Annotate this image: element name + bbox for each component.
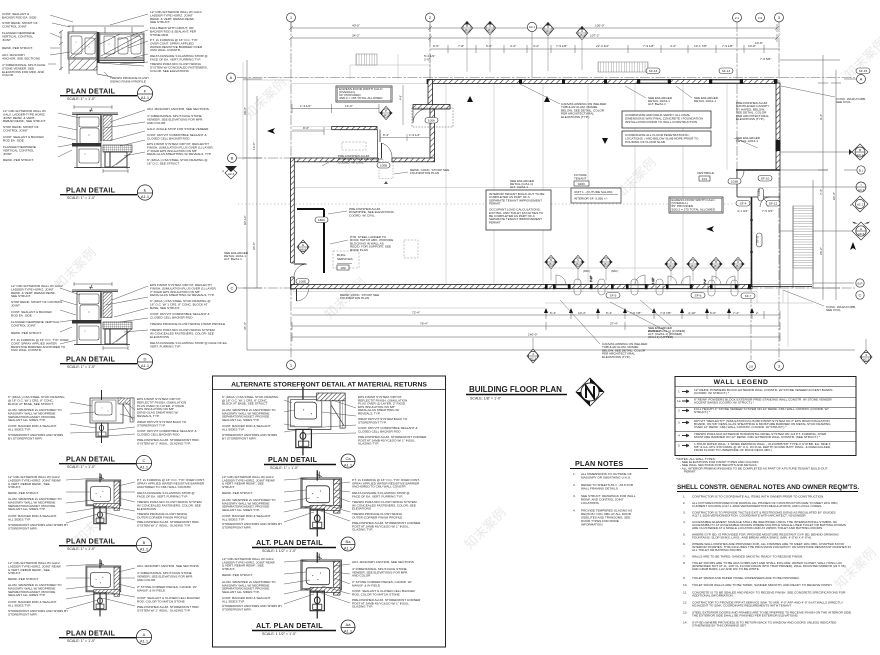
svg-text:Ca: Ca	[345, 456, 351, 461]
door tag SF-5	[606, 293, 620, 299]
svg-text:A8.4: A8.4	[487, 28, 493, 32]
svg-text:SHELL CONSTR. GENERAL NOTES AN: SHELL CONSTR. GENERAL NOTES AND OWNER RE…	[677, 484, 859, 491]
svg-text:26'-2": 26'-2"	[819, 247, 823, 255]
svg-text:ALT. PLAN DETAIL: ALT. PLAN DETAIL	[256, 621, 323, 630]
svg-text:2: 2	[850, 203, 852, 207]
svg-text:PLAN DETAIL: PLAN DETAIL	[66, 186, 116, 195]
svg-text:B.P: B.P	[858, 282, 863, 286]
svg-text:4'-2": 4'-2"	[670, 44, 676, 48]
svg-text:5: 5	[678, 444, 680, 448]
door tag 100A	[425, 118, 438, 124]
section marker P/A2.3 mid	[379, 106, 392, 119]
svg-text:9'-4": 9'-4"	[819, 114, 823, 120]
svg-text:REINF. PER STRUCT.: REINF. PER STRUCT.	[11, 331, 42, 335]
stoop dashed	[379, 162, 393, 185]
svg-text:A2.3: A2.3	[383, 113, 389, 117]
svg-text:SCALE: 1" = 1'-0": SCALE: 1" = 1'-0"	[67, 639, 96, 643]
ramp hatch top-middle	[598, 62, 648, 72]
plan detail A drawing	[86, 559, 121, 616]
coordination note box 1	[622, 111, 711, 128]
svg-text:D: D	[144, 357, 147, 362]
svg-text:A1.1: A1.1	[141, 95, 150, 100]
section marker B/A3.1 right	[780, 144, 868, 160]
svg-text:B: B	[143, 540, 146, 545]
svg-text:6'-6": 6'-6"	[433, 44, 439, 48]
svg-text:TRESPA PROFACE FLUSH SIDINGOUT: TRESPA PROFACE FLUSH SIDINGOUTER-CORNER …	[352, 512, 403, 519]
svg-text:BUILDING FLOOR PLAN: BUILDING FLOOR PLAN	[469, 385, 562, 394]
svg-text:TRESPA PROFACE FLUSHSIDING FIN: TRESPA PROFACE FLUSHSIDING FINISH PROFIL…	[110, 76, 149, 83]
svg-text:60'-10": 60'-10"	[243, 215, 247, 225]
awning edge light	[292, 127, 331, 130]
legend row 5	[678, 442, 831, 452]
svg-text:100A: 100A	[428, 119, 436, 123]
svg-text:A1.1: A1.1	[344, 546, 353, 551]
svg-text:SCALE: 1" = 1'-0": SCALE: 1" = 1'-0"	[67, 196, 96, 200]
wall legend box	[675, 377, 856, 456]
coordination note box 2	[622, 131, 711, 146]
svg-text:B: B	[859, 148, 861, 152]
grid bubble 2 top	[426, 13, 435, 22]
svg-text:SF-12: SF-12	[769, 202, 778, 206]
svg-text:EPS FINISH SYSTEM: DRYVIT, REF: EPS FINISH SYSTEM: DRYVIT, REFLECTITFINI…	[150, 283, 217, 297]
grid bubble A right	[844, 75, 866, 84]
bldg services label	[337, 253, 353, 270]
svg-text:1'-10": 1'-10"	[590, 276, 593, 282]
grid bubble 3 bottom	[775, 362, 784, 371]
west wall door opening	[290, 263, 308, 277]
future tenant label	[574, 173, 589, 186]
svg-text:SF-4: SF-4	[740, 202, 747, 206]
svg-text:A: A	[230, 75, 233, 80]
svg-text:7'-8": 7'-8"	[458, 44, 464, 48]
svg-text:I: I	[861, 183, 862, 187]
svg-text:DELTA FASSADE S FLASHING STRIP: DELTA FASSADE S FLASHING STRIP @FACE OF …	[137, 491, 195, 498]
svg-text:100B: 100B	[380, 164, 387, 168]
grid line 3	[778, 22, 780, 361]
svg-text:2.ALL FIXTURES PROVIDED FOR DU: 2.ALL FIXTURES PROVIDED FOR DURING ALL P…	[683, 501, 839, 508]
svg-text:2: 2	[678, 409, 680, 413]
grid bubble C right	[856, 291, 864, 299]
svg-text:PLAN DETAIL: PLAN DETAIL	[66, 355, 116, 364]
svg-text:7.WALLS ARE TO BE TAPED, SANDE: 7.WALLS ARE TO BE TAPED, SANDED SMOOTH, …	[683, 555, 803, 559]
svg-text:7'-9 1/8": 7'-9 1/8"	[556, 44, 567, 48]
svg-text:B: B	[231, 156, 234, 161]
svg-text:B.): B.)	[859, 169, 863, 173]
svg-text:SF-6: SF-6	[695, 294, 702, 298]
detail F bubble	[137, 86, 152, 101]
detail F leader lines	[48, 14, 148, 76]
svg-text:A2.3: A2.3	[530, 357, 537, 361]
svg-text:1'-4 1/2": 1'-4 1/2"	[300, 104, 311, 108]
detail Ca drawing	[288, 387, 345, 456]
grid line 1	[290, 22, 292, 361]
plan detail F drawing	[59, 26, 144, 77]
detail D bubble	[137, 354, 152, 369]
svg-text:A8.4: A8.4	[713, 264, 719, 268]
grid bubble B. right	[844, 166, 865, 174]
svg-text:SCALE: 1" = 1'-0": SCALE: 1" = 1'-0"	[67, 465, 96, 469]
svg-text:140'-0": 140'-0"	[528, 333, 538, 337]
svg-text:A8.4: A8.4	[575, 262, 581, 266]
svg-text:A2.3: A2.3	[863, 358, 870, 362]
svg-text:SEE ENLARGEDDETAIL 10/A1.1: SEE ENLARGEDDETAIL 10/A1.1	[694, 96, 719, 103]
grid line C	[237, 287, 855, 289]
svg-text:TRESPA PROFACE FLUSH SIDINGOUT: TRESPA PROFACE FLUSH SIDINGOUTER-CORNER …	[137, 512, 188, 519]
grid line 2	[429, 22, 431, 160]
grid bubble 1 bottom	[287, 361, 296, 370]
svg-text:SF-9: SF-9	[756, 236, 760, 243]
detail A bubble	[136, 629, 151, 644]
svg-text:SEE ENLARGEDDETAIL 12/A1.1: SEE ENLARGEDDETAIL 12/A1.1	[736, 136, 761, 143]
svg-text:S: S	[489, 24, 491, 28]
svg-text:A1.1: A1.1	[141, 363, 150, 368]
FLOOR PLAN	[222, 13, 880, 371]
dotted awning line	[238, 203, 735, 205]
section diamond row top: D S A2.1 H H	[461, 21, 588, 77]
svg-text:A2.3: A2.3	[228, 172, 235, 176]
svg-text:040C: 040C	[578, 182, 586, 186]
section diamond row above storefront: R S T K J B D	[544, 255, 744, 281]
svg-text:SF-10: SF-10	[761, 177, 770, 181]
svg-text:PLAN NOTES: PLAN NOTES	[575, 459, 623, 468]
window tag SF-13	[719, 68, 733, 74]
svg-text:4'-2": 4'-2"	[510, 44, 516, 48]
svg-text:TRESPA PROFACE FLUSH SIDING FI: TRESPA PROFACE FLUSH SIDING FINISH PROFI…	[150, 322, 225, 326]
section marker A2.3 bottom right	[860, 339, 872, 364]
legend row 4	[678, 432, 827, 439]
door tag 103B	[728, 179, 741, 185]
svg-text:SF-5: SF-5	[610, 294, 617, 298]
svg-text:A1.1: A1.1	[140, 465, 149, 470]
entry door 100B leaf	[382, 143, 393, 158]
svg-text:SCALE: 1" = 1'-0": SCALE: 1" = 1'-0"	[67, 97, 96, 101]
svg-text:PLAN DETAIL: PLAN DETAIL	[66, 87, 116, 96]
interior tenant note box	[486, 190, 551, 230]
roof ladder wall	[323, 209, 325, 273]
grid line A	[237, 77, 855, 79]
svg-text:1a: 1a	[677, 399, 681, 403]
BOTTOM BOX	[213, 376, 446, 647]
svg-text:5'-4": 5'-4"	[606, 311, 612, 315]
svg-text:C: C	[143, 458, 146, 463]
top dimension line 40'-0 / 100'-0	[289, 22, 780, 53]
svg-text:7'-2": 7'-2"	[819, 189, 823, 195]
svg-text:37'-4": 37'-4"	[243, 322, 247, 330]
svg-text:4: 4	[222, 169, 224, 173]
svg-text:SCALE: 1 1/2" = 1'-0": SCALE: 1 1/2" = 1'-0"	[262, 632, 297, 636]
svg-text:2.9: 2.9	[758, 16, 763, 20]
alcove inner dims	[380, 134, 430, 141]
alternate storefront box border	[213, 376, 446, 647]
legend row 2	[678, 407, 829, 414]
svg-text:PRE-FINISHED ALUM.CANTILEVER C: PRE-FINISHED ALUM.CANTILEVER CANOPYBY HA…	[736, 101, 769, 121]
svg-text:ADJ. MASONRY ANCHOR, SEE SECTI: ADJ. MASONRY ANCHOR, SEE SECTIONS	[147, 107, 209, 111]
detail Ba drawing	[301, 470, 341, 536]
svg-text:14'-0": 14'-0"	[345, 104, 353, 108]
west wall	[291, 158, 295, 289]
svg-text:SCALE: 1/8" = 1'-0": SCALE: 1/8" = 1'-0"	[470, 397, 502, 401]
entry alcove wall	[332, 127, 377, 130]
svg-text:103B: 103B	[731, 180, 738, 184]
left vertical dimension lines	[243, 60, 379, 350]
svg-text:A1.1: A1.1	[141, 194, 150, 199]
grid bubble 2.1	[733, 13, 742, 22]
svg-text:10'-4": 10'-4"	[578, 311, 586, 315]
svg-text:REINF. PER STRUCT.: REINF. PER STRUCT.	[8, 491, 39, 495]
legend row 1	[678, 388, 832, 395]
svg-text:7'-9 1/8": 7'-9 1/8"	[643, 44, 654, 48]
grid bubble A left	[227, 73, 236, 82]
svg-text:1 1/2": 1 1/2"	[652, 277, 655, 284]
svg-text:A8.4: A8.4	[579, 33, 585, 37]
svg-text:4'-10": 4'-10"	[688, 311, 696, 315]
svg-text:B: B	[715, 260, 717, 264]
svg-text:20'-0": 20'-0"	[252, 242, 256, 250]
grid bubble 2.8 bottom	[747, 362, 756, 371]
plan detail C drawing	[90, 390, 134, 443]
bottom dimension lines	[247, 311, 855, 350]
svg-text:SF-13: SF-13	[722, 69, 731, 73]
section marker G/A8.6 left	[297, 240, 309, 254]
TITLES AND NOTES	[466, 377, 859, 628]
svg-text:2'-0": 2'-0"	[424, 57, 430, 61]
svg-text:SCALE: 1 1/2" = 1'-0": SCALE: 1 1/2" = 1'-0"	[262, 549, 297, 553]
svg-text:VESTIBULE: VESTIBULE	[697, 171, 714, 175]
svg-text:PLAN DETAIL: PLAN DETAIL	[66, 629, 116, 638]
svg-text:PRE-FINISHED ALUM. STOREFRONT: PRE-FINISHED ALUM. STOREFRONT HDR.SYSTEM…	[137, 605, 200, 612]
svg-text:5'-0": 5'-0"	[710, 311, 716, 315]
svg-text:REINF. PER STRUCT.: REINF. PER STRUCT.	[222, 573, 253, 577]
svg-text:1'-9 1/2": 1'-9 1/2"	[409, 133, 420, 137]
plan detail E drawing	[72, 105, 132, 173]
svg-text:A: A	[143, 632, 146, 637]
unit 1 label box	[571, 188, 621, 203]
section marker A/A8.3 right	[780, 222, 870, 241]
svg-text:7'-2": 7'-2"	[733, 311, 739, 315]
detail B leader lines	[66, 478, 135, 523]
detail Aa drawing	[301, 552, 341, 618]
svg-text:180: 180	[340, 266, 345, 270]
detail A leader lines	[66, 564, 135, 609]
svg-text:7'-0": 7'-0"	[704, 279, 707, 284]
north wall	[427, 79, 778, 84]
svg-text:2.8: 2.8	[749, 365, 754, 369]
detail Ca leaders	[284, 400, 356, 434]
svg-text:14'-0": 14'-0"	[252, 142, 256, 150]
LEFT DETAIL COLUMN	[2, 10, 228, 645]
door tag 103A	[757, 188, 764, 201]
svg-text:D: D	[466, 24, 468, 28]
window tag SF-14	[646, 68, 660, 74]
svg-text:P: P	[385, 109, 387, 113]
alcove west jamb	[378, 130, 381, 160]
svg-text:5'-4": 5'-4"	[550, 311, 556, 315]
room 100A north wall	[413, 105, 450, 110]
svg-text:E: E	[144, 188, 147, 193]
svg-text:1: 1	[678, 390, 680, 394]
detail B bubble	[136, 537, 151, 552]
marker I/A3.1 right	[780, 182, 866, 192]
section marker 4/A2.3 left	[222, 166, 237, 179]
svg-text:SF-14: SF-14	[649, 69, 658, 73]
svg-text:9.TOILET PAPER AND PAPER TOWEL: 9.TOILET PAPER AND PAPER TOWEL DISPENSER…	[683, 576, 800, 580]
svg-text:103A: 103A	[757, 188, 761, 196]
svg-text:EPS FINISH SYSTEM: DRYVIT, REF: EPS FINISH SYSTEM: DRYVIT, REFLECTITFINI…	[147, 142, 214, 156]
svg-text:100'-0": 100'-0"	[595, 24, 605, 28]
svg-text:4: 4	[678, 434, 680, 438]
window tag SF-12	[766, 201, 780, 207]
svg-text:A8.3: A8.3	[735, 264, 741, 268]
svg-text:Aa: Aa	[346, 622, 352, 627]
detail Ba bubble	[341, 537, 355, 551]
grid line B	[237, 157, 300, 159]
detail D leader lines	[60, 286, 148, 344]
svg-text:A8.4: A8.4	[690, 264, 696, 268]
svg-text:SF-15: SF-15	[859, 69, 868, 73]
svg-text:FUTURETENANT: FUTURETENANT	[574, 173, 587, 181]
svg-text:1.CONTRACTOR IS TO COORDINATE: 1.CONTRACTOR IS TO COORDINATE ALL ITEMS …	[683, 495, 824, 499]
svg-text:76'-4": 76'-4"	[420, 322, 428, 326]
svg-text:5'-8": 5'-8"	[486, 44, 492, 48]
room 100A door arc	[412, 108, 453, 127]
svg-text:REINF. PER STRUCT.: REINF. PER STRUCT.	[8, 577, 39, 581]
left protrusion top wall	[291, 158, 378, 162]
svg-text:ALT. PLAN DETAIL: ALT. PLAN DETAIL	[256, 538, 323, 547]
svg-text:PLAN DETAIL: PLAN DETAIL	[66, 455, 116, 464]
door tag 100B	[377, 163, 390, 169]
svg-text:REINF. PER STRUCT.: REINF. PER STRUCT.	[222, 491, 253, 495]
svg-text:3: 3	[678, 421, 680, 425]
NW corner pillar wall	[428, 80, 433, 106]
svg-text:4.ACCESSIBLE ELEMENT SIGNAGE S: 4.ACCESSIBLE ELEMENT SIGNAGE SHALL BE ID…	[683, 520, 846, 530]
svg-text:23'-4": 23'-4"	[243, 107, 247, 115]
SW exit door	[297, 289, 309, 301]
svg-text:A1.1: A1.1	[140, 547, 149, 552]
svg-text:SCALE: 1" = 1'-0": SCALE: 1" = 1'-0"	[270, 466, 299, 470]
vestibule dim texts	[737, 209, 880, 367]
svg-text:107'-2": 107'-2"	[590, 34, 600, 38]
svg-text:101: 101	[702, 177, 707, 181]
svg-text:C: C	[859, 293, 862, 298]
svg-text:10'-1 7/8": 10'-1 7/8"	[694, 44, 707, 48]
svg-text:(SIM.): (SIM.)	[583, 269, 590, 273]
svg-text:UNIT 1 - (FUTURE SALON): UNIT 1 - (FUTURE SALON)	[574, 190, 612, 194]
svg-text:12" CMU EXTERIOR WALL W/GALV.: 12" CMU EXTERIOR WALL W/GALV. LADDER-TYP…	[3, 109, 46, 123]
detail Aa bubble	[341, 620, 355, 634]
svg-text:4'-2": 4'-2"	[533, 44, 539, 48]
svg-text:10'-8": 10'-8"	[755, 41, 763, 45]
flow arrows	[267, 96, 856, 250]
svg-text:4: 4	[865, 353, 867, 357]
svg-text:REINF. PER STRUCT.: REINF. PER STRUCT.	[2, 46, 33, 50]
mullion callout outlines	[574, 276, 738, 296]
right ladder hatch walkway	[793, 206, 813, 288]
legend row 3	[678, 419, 831, 429]
detail E bubble	[137, 185, 152, 200]
svg-text:SCALE: 1" = 1'-0": SCALE: 1" = 1'-0"	[67, 365, 96, 369]
svg-text:SF-7: SF-7	[745, 294, 752, 298]
plan detail D drawing	[72, 282, 132, 350]
interior wall stub	[297, 208, 324, 210]
svg-text:7'-5 3/4": 7'-5 3/4"	[762, 209, 773, 213]
leader lines plan notes	[322, 84, 758, 344]
svg-text:A8.4: A8.4	[464, 28, 470, 32]
svg-text:4'-1 3/4": 4'-1 3/4"	[737, 209, 748, 213]
svg-text:PRE-FINISHED ALUM. STOREFRONT: PRE-FINISHED ALUM. STOREFRONT HDR.SYSTEM…	[137, 438, 200, 445]
svg-text:C: C	[231, 286, 234, 291]
svg-text:72'-4": 72'-4"	[412, 311, 420, 315]
svg-text:7'-0 5/8": 7'-0 5/8"	[760, 57, 771, 61]
svg-text:TRESPA PURA NCF EXTERIOR HORIZ: TRESPA PURA NCF EXTERIOR HORIZONTAL PANE…	[694, 432, 827, 439]
svg-text:REINF. PER STRUCT.: REINF. PER STRUCT.	[3, 158, 34, 162]
svg-text:34'-2": 34'-2"	[352, 34, 360, 38]
plan detail B drawing	[86, 473, 121, 530]
north arrow	[576, 378, 604, 406]
egress calc box 1	[336, 86, 392, 102]
svg-text:INTERIOR SF: 5,056 +/-: INTERIOR SF: 5,056 +/-	[574, 197, 608, 201]
grid bubble C left	[228, 284, 237, 293]
door tag SF-7	[741, 293, 755, 299]
grid bubble 1 top	[287, 13, 296, 22]
svg-text:R: R	[550, 258, 552, 262]
window tag SF-15 right edge	[856, 68, 870, 74]
detail Ca bubble	[341, 454, 355, 468]
svg-text:K: K	[670, 260, 672, 264]
south storefront wall	[291, 284, 812, 289]
svg-text:7'-8 7/8": 7'-8 7/8"	[660, 311, 671, 315]
svg-text:ADJ. MASONRY ANCHOR, SEE SECTI: ADJ. MASONRY ANCHOR, SEE SECTIONS	[352, 560, 414, 564]
window tag SF-4	[736, 201, 750, 207]
svg-text:GALV. ANGLE STOP FOR STONE VEN: GALV. ANGLE STOP FOR STONE VENEER	[147, 127, 209, 131]
svg-text:4: 4	[532, 352, 534, 356]
svg-text:A8.4: A8.4	[548, 262, 554, 266]
detail C bubble	[136, 455, 151, 470]
svg-text:1.ALL DIMENSIONS TO OUTSIDE OF: 1.ALL DIMENSIONS TO OUTSIDE OFMASONRY OR…	[573, 472, 632, 480]
grid bubble B left	[228, 154, 237, 163]
svg-text:A8.3: A8.3	[858, 232, 865, 236]
svg-text:4'-6": 4'-6"	[399, 95, 403, 100]
svg-text:A1.1: A1.1	[344, 463, 353, 468]
grid bubble 3 top	[775, 13, 784, 22]
detail Ba leaders	[284, 478, 350, 522]
svg-text:(SIM.): (SIM.)	[611, 269, 618, 273]
svg-text:A8.4: A8.4	[668, 264, 674, 268]
svg-text:ALTERNATE STOREFRONT DETAIL AT: ALTERNATE STOREFRONT DETAIL AT MATERIAL …	[231, 382, 427, 389]
svg-text:40'-0": 40'-0"	[352, 24, 360, 28]
svg-text:7'-9 1/8": 7'-9 1/8"	[722, 44, 733, 48]
detail Aa leaders	[284, 560, 350, 604]
room tag 180A	[315, 217, 328, 223]
section marker 2/A2.1 right	[850, 196, 868, 212]
grid bubble B.P right	[813, 279, 864, 287]
svg-text:10.TOILET ROOM WALLS ARE TO BE: 10.TOILET ROOM WALLS ARE TO BE TAPED, SA…	[683, 583, 832, 587]
storefront door swings	[556, 275, 735, 285]
svg-text:S: S	[577, 258, 579, 262]
window tag SF-10	[758, 176, 772, 182]
svg-text:2.1: 2.1	[735, 16, 740, 20]
svg-text:A8.6: A8.6	[300, 248, 307, 252]
svg-text:A2.1: A2.1	[857, 203, 864, 207]
stair hatch top-left	[356, 54, 377, 65]
detail E leader lines	[58, 110, 145, 157]
svg-text:A8.4: A8.4	[545, 29, 551, 33]
vestibule label	[697, 171, 714, 181]
svg-text:H: H	[581, 29, 583, 33]
svg-text:8'-4": 8'-4"	[383, 133, 389, 137]
svg-text:22'-3 3/4": 22'-3 3/4"	[596, 44, 609, 48]
grid bubble 2.9	[756, 13, 765, 22]
light construction lines	[243, 54, 813, 347]
